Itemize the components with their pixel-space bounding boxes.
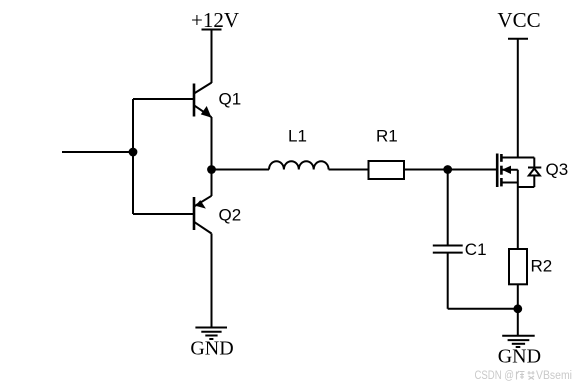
node input junction <box>129 148 138 157</box>
wire to Q1 base <box>133 98 194 100</box>
wire output node to L1 <box>212 169 270 171</box>
node gate junction <box>443 165 452 174</box>
node output junction <box>207 165 216 174</box>
wire gate node to Q3 gate <box>448 169 497 171</box>
ground (right) <box>502 336 535 347</box>
wire input vertical <box>132 99 134 214</box>
svg-text:VCC: VCC <box>497 8 540 32</box>
wire L1 to R1 <box>329 169 369 171</box>
wire VCC to Q3 drain <box>517 39 519 158</box>
wire R2 to ground node <box>517 284 519 309</box>
wire node to Q2 emitter <box>211 170 213 197</box>
wire Q2 collector to GND <box>211 234 213 328</box>
node ground junction <box>513 304 522 313</box>
wire input stub <box>62 151 133 153</box>
watermark <box>475 370 573 382</box>
svg-text:R1: R1 <box>376 127 398 146</box>
svg-text:GND: GND <box>498 346 541 368</box>
wire +12V to Q1 collector <box>211 30 213 84</box>
svg-text:R2: R2 <box>531 257 553 276</box>
svg-text:Q2: Q2 <box>219 206 242 225</box>
transistor Q2 (PNP) <box>194 196 212 234</box>
wire to Q2 base <box>133 213 194 215</box>
power terminal bar +12V <box>202 29 222 31</box>
resistor R2 <box>509 249 527 284</box>
wire node to ground <box>517 309 519 336</box>
svg-text:CSDN @: CSDN @ <box>475 370 515 382</box>
body diode of Q3 <box>518 158 542 188</box>
inductor L1 <box>269 161 329 169</box>
svg-text:L1: L1 <box>288 127 307 146</box>
capacitor C1 <box>433 246 463 253</box>
resistor R1 <box>369 161 405 179</box>
transistor Q1 (NPN) <box>194 83 212 118</box>
svg-text:Q1: Q1 <box>219 90 242 109</box>
wire gate node to C1 <box>447 170 449 246</box>
wire Q1 emitter to output node <box>211 117 213 170</box>
power terminal bar VCC <box>508 38 528 40</box>
ground (left) <box>195 328 227 340</box>
wire R1 to gate node <box>404 169 448 171</box>
transistor Q3 (N-MOSFET) <box>497 154 534 250</box>
svg-text:GND: GND <box>190 338 233 360</box>
svg-text:C1: C1 <box>465 240 487 259</box>
svg-text:Q3: Q3 <box>546 160 569 179</box>
svg-text:+12V: +12V <box>191 8 239 32</box>
svg-text:VBsemi: VBsemi <box>536 370 572 382</box>
wire bottom rail <box>448 308 518 310</box>
wire C1 to bottom rail <box>447 253 449 309</box>
